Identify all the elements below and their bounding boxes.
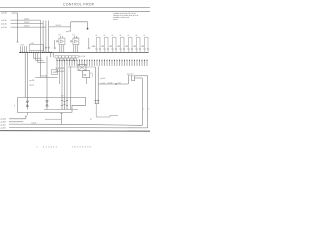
svg-text:t1 t2 t3 t4: t1 t2 t3 t4: [79, 55, 85, 58]
bottom net labels: [1, 118, 7, 130]
pin circle x46: [45, 47, 47, 49]
pin stub with circle x54: [54, 40, 56, 47]
box S1 mark: [53, 71, 57, 73]
svg-text:150-45: 150-45: [32, 123, 37, 125]
relay U2 top pins: [73, 36, 75, 38]
bottom wire row B: [9, 121, 23, 123]
relay U2 bottom pins: [73, 45, 75, 53]
solenoid labels: [96, 35, 146, 37]
svg-text:a: a: [37, 147, 39, 149]
drop labels: [101, 78, 106, 85]
svg-text:c 150: c 150: [30, 43, 34, 45]
relay U1 triangle: [60, 40, 63, 43]
X mark: [79, 65, 86, 70]
svg-text:a5: a5: [128, 35, 130, 37]
svg-text:p 05-04: p 05-04: [1, 27, 7, 29]
svg-text:gn-45C: gn-45C: [1, 125, 7, 127]
svg-text:150-12: 150-12: [24, 22, 29, 24]
svg-text:4 1 2 d 1 4: 4 1 2 d 1 4: [43, 147, 58, 149]
svg-text:150-13: 150-13: [24, 26, 29, 28]
svg-text:gn: gn: [90, 118, 92, 120]
elbow wire from bus pin 2: [36, 52, 44, 60]
link to right riser 2: [136, 75, 148, 77]
svg-text:a2: a2: [104, 35, 106, 37]
top border line 2: [0, 10, 150, 12]
stub below riser: [70, 27, 72, 31]
relay U2 box: [73, 38, 79, 45]
diode symbol at x27: [26, 98, 29, 110]
stub below box x27: [26, 113, 28, 116]
riser hook: [60, 113, 62, 114]
note text block top right: [113, 12, 138, 21]
pin circle x49: [48, 47, 50, 49]
bus X2 stubs from valve circles: [97, 50, 149, 53]
labelled wire stubs left: [57, 66, 71, 97]
inline connector symbols between valves: [91, 46, 144, 47]
svg-text:a6: a6: [136, 35, 138, 37]
relay U1 bottom pins: [59, 45, 61, 53]
terminal strip boxes row: [55, 56, 78, 61]
relay U1 box: [59, 38, 65, 45]
wire segment to riser: [45, 118, 62, 120]
svg-text:8 6: 8 6: [59, 35, 61, 37]
svg-text:gn-150: gn-150: [101, 78, 106, 80]
svg-text:8 6: 8 6: [73, 35, 75, 37]
box B2 side elbow: [90, 73, 93, 77]
svg-text:p 05-08: p 05-08: [1, 13, 7, 15]
sensor wire y117: [96, 104, 118, 118]
svg-text:gn-150: gn-150: [108, 82, 113, 84]
connector bus X1: [19, 51, 54, 53]
component box B2: [83, 71, 90, 78]
svg-text:4: 4: [14, 105, 15, 107]
sensor drop x98: [97, 66, 99, 103]
svg-text:a1: a1: [96, 35, 98, 37]
svg-text:150-11: 150-11: [24, 19, 29, 21]
wire row 3: [11, 26, 46, 28]
solenoid pair row (7 valve symbols): [96, 37, 149, 49]
svg-text:1 8 5 0 1 6 9 0: 1 8 5 0 1 6 9 0: [72, 147, 92, 149]
drop wire x47: [46, 56, 48, 97]
wire from B2 down: [86, 78, 88, 84]
right riser R1: [141, 78, 143, 125]
svg-text:CONTROL PROP: CONTROL PROP: [63, 3, 95, 7]
bottom border line: [0, 130, 150, 133]
wire row 2: [11, 23, 44, 25]
wire row 1: [11, 19, 41, 21]
small box S1: [52, 70, 58, 75]
relay U2 triangle: [74, 40, 77, 43]
svg-text:p 05-06: p 05-06: [1, 23, 7, 25]
bottom wire row D: [9, 127, 148, 129]
drop stub x53: [52, 52, 54, 57]
connector block box B1: [29, 44, 43, 50]
svg-text:a3: a3: [112, 35, 114, 37]
sensor cluster in box: [61, 98, 71, 110]
component box BB (valve block): [18, 98, 86, 113]
vertical drop V49: [48, 21, 50, 53]
svg-text:gn-04: gn-04: [30, 84, 34, 86]
relay U1 top pins: [59, 36, 61, 38]
wire segment to riser: [49, 26, 71, 28]
svg-text:gn-1 gn-2: gn-1 gn-2: [127, 74, 134, 76]
wire y67 run: [68, 66, 96, 68]
wire top run: [71, 21, 88, 23]
relay U2 coil pin circle: [70, 41, 72, 43]
harness wire y77.5: [35, 77, 57, 79]
svg-text:b: b: [148, 108, 149, 110]
wire drop to node: [87, 22, 89, 28]
top border line 1: [0, 6, 150, 8]
riser box-to-rowC: [61, 113, 63, 124]
drop stub x50: [50, 52, 52, 57]
row A arrow riser: [25, 116, 27, 119]
drop wire x40: [39, 52, 41, 77]
connector ticks on drops: [95, 101, 100, 104]
connector J2 pin row: [56, 60, 147, 66]
vertical drop V40: [39, 20, 41, 52]
svg-text:a: a: [143, 108, 144, 110]
vertical drop V46: [45, 21, 47, 53]
drop wire x25: [24, 52, 26, 97]
wire riser up: [70, 22, 72, 27]
harness wire y84: [98, 83, 128, 85]
svg-text:a4: a4: [120, 35, 122, 37]
box BB internal bar: [44, 109, 78, 111]
svg-text:g1 g2 g3 g4: g1 g2 g3 g4: [56, 67, 65, 69]
svg-text:gn-150: gn-150: [66, 31, 71, 33]
main bus X2: [54, 51, 149, 53]
wire p5-08 to corner: [12, 13, 18, 42]
pin stub with circle x88: [88, 38, 90, 47]
bottom wire row A: [9, 118, 26, 120]
stub labels: [56, 67, 65, 72]
vertical drop V43: [42, 21, 44, 53]
svg-text:gn-45D: gn-45D: [1, 128, 7, 130]
link to right riser 1: [135, 77, 143, 79]
elbow wire from bus pin 3: [38, 52, 46, 62]
svg-text:p 05-05: p 05-05: [1, 20, 7, 22]
svg-text:mm td: mm td: [113, 18, 118, 21]
drop wire x27: [26, 52, 28, 97]
junction dot y84: [115, 83, 116, 84]
junction box with X: [78, 64, 86, 70]
svg-text:gn-150: gn-150: [30, 80, 35, 82]
bus X1 pin dots: [20, 52, 52, 53]
relay U1 coil pin circle: [56, 41, 58, 43]
connector pair symbol: [132, 76, 135, 81]
elbow wire from bus pin 1: [33, 52, 41, 58]
bottom wire row C: [9, 124, 142, 125]
sensor drop x95.5: [95, 67, 97, 104]
svg-text:gn-45B: gn-45B: [1, 122, 6, 124]
diode symbol at x47: [46, 98, 49, 110]
svg-text:gn-45A: gn-45A: [1, 118, 7, 121]
connector stair riser: [128, 76, 129, 84]
svg-text:150-14: 150-14: [56, 25, 61, 27]
svg-text:50: 50: [84, 74, 87, 77]
svg-text:b1 b2 b3 b4: b1 b2 b3 b4: [56, 71, 65, 73]
connector pins above bus: [21, 46, 27, 52]
node junction dot: [87, 28, 89, 30]
svg-text:a7: a7: [144, 35, 146, 37]
svg-text:1 2 3: 1 2 3: [61, 96, 65, 98]
svg-text:a 04: a 04: [118, 82, 121, 84]
riser foot tick: [16, 41, 18, 43]
right riser R2: [147, 76, 149, 128]
